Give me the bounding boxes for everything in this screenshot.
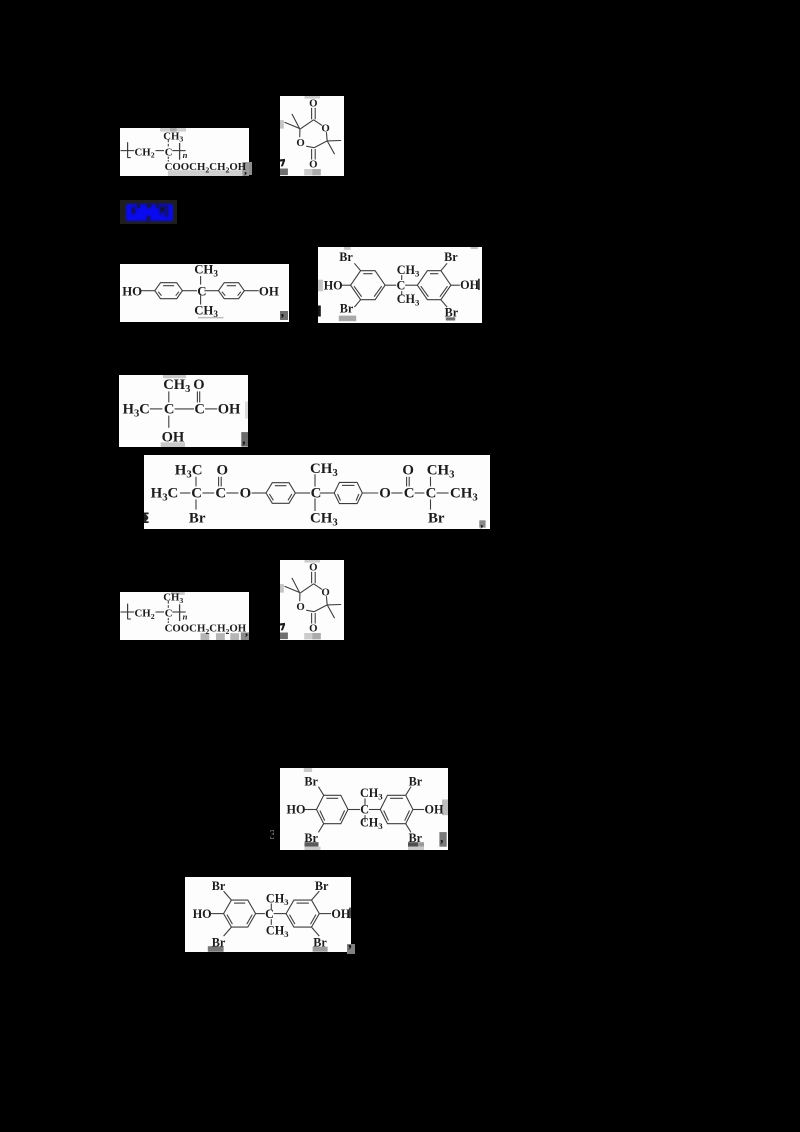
bond C1-OH	[205, 407, 217, 409]
bond ring-OH	[412, 809, 423, 811]
svg-text:,: ,	[244, 162, 247, 176]
svg-text:Br: Br	[444, 250, 458, 264]
methyl on C3 horizontal	[327, 604, 341, 606]
ring bond C3-C4	[314, 605, 327, 612]
svg-text:n: n	[182, 611, 187, 621]
structure box 4: tetrabromobisphenol A	[318, 247, 482, 323]
svg-text:C: C	[191, 486, 202, 502]
bond C-CH3 bottom	[364, 815, 366, 822]
grey patch continuation right of box 1	[249, 162, 252, 175]
comma artifact bottom-right of box 3	[280, 311, 288, 320]
svg-text:CH3​: CH3​	[194, 264, 218, 278]
bond H3C-C1	[180, 492, 190, 494]
bond C4-Br vertical	[430, 499, 432, 509]
benzene ring left	[223, 900, 255, 927]
bond to Br bottom-left	[223, 927, 231, 936]
svg-text:HO: HO	[122, 284, 142, 298]
C=O double bond bottom	[311, 613, 313, 624]
ring bond C1-O2	[314, 120, 322, 126]
svg-text:CH3​: CH3​	[310, 510, 338, 528]
bond H3C-C	[149, 407, 162, 409]
bond to Br top-left	[223, 891, 231, 900]
C=O double bond top	[311, 572, 313, 584]
svg-text:O: O	[240, 486, 252, 502]
C2=O double bond	[218, 477, 220, 487]
bond to Br top-left	[318, 787, 323, 796]
svg-text:O: O	[309, 562, 317, 574]
svg-text:,: ,	[245, 624, 248, 638]
bond CH2-C	[156, 150, 165, 152]
svg-text:HO: HO	[286, 803, 305, 817]
ring bond O2-C3	[325, 132, 328, 141]
svg-text:C: C	[164, 608, 172, 620]
bond C-CH3 (dashed)	[167, 601, 169, 604]
artifact: bar after OH	[478, 279, 480, 290]
svg-text:C: C	[404, 486, 415, 502]
grey artifact patches	[163, 375, 186, 378]
svg-text:Br: Br	[445, 305, 459, 319]
benzene ring left	[316, 795, 348, 823]
bond into left bracket	[120, 611, 134, 613]
comma artifact right of box 10	[347, 944, 354, 955]
svg-text:O: O	[309, 98, 317, 110]
bond C-ring	[368, 809, 379, 811]
svg-text:C: C	[397, 278, 406, 292]
structure box 1: poly(2-hydroxyethyl methacrylate) repeat unit	[120, 128, 249, 176]
polymer right bracket with n	[178, 604, 180, 621]
bond C-COO (dashed)	[167, 618, 169, 620]
svg-text:n: n	[183, 150, 188, 160]
methyl on C6 horizontal	[285, 586, 300, 592]
svg-text:CH3​: CH3​	[194, 304, 218, 320]
ring bond C3-C4	[314, 141, 327, 148]
svg-text:Br: Br	[212, 935, 226, 949]
black glyph artifact left edge	[144, 513, 149, 524]
bond to Br bottom-left	[354, 300, 360, 307]
grey artifact patches	[208, 946, 224, 952]
grey artifact patches	[160, 128, 186, 132]
benzene ring right	[286, 900, 319, 927]
benzene ring left	[351, 271, 386, 300]
grey artifact patches	[305, 96, 321, 99]
C1=O double bond	[196, 391, 198, 402]
black glyph artifact bottom-left	[280, 623, 285, 631]
artifact glyph left of box 9	[270, 830, 274, 842]
benzene ring left	[155, 283, 183, 299]
svg-text:O: O	[379, 486, 391, 502]
bond ring-OH	[244, 290, 258, 292]
svg-text:O: O	[296, 137, 304, 149]
svg-text:HO: HO	[192, 907, 211, 921]
structure box 2: tetramethylglycolide ring	[280, 96, 344, 176]
bond C-ring	[273, 913, 285, 915]
bond O-C3	[391, 492, 402, 494]
bond HO-ring	[141, 290, 155, 292]
methyl on C3 diagonal	[327, 605, 334, 618]
benzene ring right	[417, 271, 451, 300]
bond C-CH3 bottom	[270, 919, 272, 925]
bond C1-Br vertical	[195, 499, 197, 509]
structure box 6: bisphenol A bis(2-bromo-2-methylpropanoate)	[144, 455, 490, 529]
svg-text:COOCH2​CH2​OH: COOCH2​CH2​OH	[165, 161, 247, 174]
svg-text:CH3​: CH3​	[163, 377, 190, 395]
svg-text:Br: Br	[340, 302, 354, 316]
svg-text:OH: OH	[161, 429, 184, 445]
bond to Br top-right	[405, 787, 410, 796]
methyl on C3 horizontal	[327, 140, 341, 142]
grey underline artifact	[198, 317, 224, 319]
svg-text:O: O	[321, 122, 329, 134]
benzene ring right	[380, 795, 413, 823]
svg-text:H3​C: H3​C	[175, 463, 203, 481]
C=O double bond top	[311, 108, 313, 120]
benzene ring 2	[334, 482, 362, 503]
bond C through right bracket	[172, 150, 185, 152]
svg-text:Br: Br	[339, 250, 353, 264]
bond ring-C	[255, 913, 264, 915]
bond to Br bottom-left	[318, 824, 323, 833]
methyl on C6 diagonal	[292, 578, 300, 593]
svg-text:C: C	[163, 401, 174, 417]
bond C2-C1	[174, 407, 193, 409]
methyl on C6 diagonal	[292, 114, 300, 129]
bond HO-ring	[304, 809, 316, 811]
svg-text:,: ,	[440, 831, 443, 845]
grey artifact patches	[304, 842, 318, 847]
svg-text:CH3​: CH3​	[163, 130, 183, 143]
svg-text:O: O	[309, 623, 317, 635]
svg-text:Br: Br	[189, 510, 206, 526]
ring bond O5-C6	[299, 129, 301, 137]
structure box 3: bisphenol A	[120, 264, 289, 322]
grey artifact patches	[305, 560, 321, 563]
bond ring-C	[385, 284, 396, 286]
bond C4-CH3 right	[437, 492, 449, 494]
bond to Br bottom-right	[441, 300, 447, 307]
bond C-CH3 bottom	[314, 499, 316, 512]
svg-text:CH3​: CH3​	[397, 292, 420, 307]
svg-text:Br: Br	[212, 879, 226, 893]
svg-text:,: ,	[480, 516, 483, 529]
svg-text:Br: Br	[315, 879, 329, 893]
svg-text:CH3​: CH3​	[266, 891, 289, 906]
grey artifact patches	[170, 592, 184, 595]
bond C through right bracket	[172, 611, 185, 613]
structure box 10: tetrabromobisphenol A	[185, 877, 351, 952]
ring bond C6-C1	[300, 584, 314, 593]
ring bond O5-C6	[299, 593, 301, 601]
bond to Br top-left	[354, 263, 360, 270]
svg-text:CH3​: CH3​	[310, 461, 338, 479]
svg-text:O: O	[193, 377, 204, 393]
svg-text:O: O	[296, 601, 304, 613]
black glyph artifact bottom-left	[280, 159, 285, 167]
bond C1-CH3 top vertical	[195, 477, 197, 487]
svg-text:C: C	[165, 146, 173, 158]
bond C-CH3 top	[200, 276, 202, 285]
bond HO-ring	[210, 913, 223, 915]
ring bond C4-O5	[306, 610, 314, 612]
svg-text:,: ,	[242, 431, 245, 446]
structure box 7: poly(2-hydroxyethyl methacrylate) repeat unit	[120, 592, 249, 640]
structure box 9: tetrabromobisphenol A	[280, 768, 449, 850]
svg-text:O: O	[217, 463, 229, 479]
artifact: bar after OH	[349, 908, 351, 919]
bond ring-OH	[319, 913, 331, 915]
svg-text:CH2​: CH2​	[135, 146, 155, 159]
svg-text:O: O	[321, 586, 329, 598]
svg-text:Br: Br	[304, 775, 318, 789]
svg-text:Br: Br	[428, 510, 445, 526]
methyl on C6 horizontal	[285, 122, 300, 128]
bond O-ring1	[252, 492, 266, 494]
bond C-CH3 top	[270, 903, 272, 909]
polymer left bracket	[127, 142, 129, 158]
bond ring-C	[348, 809, 360, 811]
bond C-CH3 top	[314, 474, 316, 486]
bond C2-OH vertical	[167, 415, 169, 427]
ring bond C1-O2	[314, 584, 322, 590]
svg-text:Br: Br	[313, 935, 327, 949]
bond C2-CH3 vertical	[167, 391, 169, 402]
svg-text:CH3​: CH3​	[266, 924, 289, 939]
svg-text:OH: OH	[424, 803, 443, 817]
benzene ring 1	[266, 483, 295, 504]
bond C-CH3 bottom	[401, 291, 403, 295]
ring bond O2-C3	[325, 596, 328, 605]
bond ring-C	[182, 290, 197, 292]
C3=O double bond	[406, 477, 408, 487]
bond C-COO (dashed)	[167, 157, 169, 159]
C=O double bond bottom	[311, 149, 313, 160]
svg-text:C: C	[265, 907, 274, 921]
bond HO-ring	[342, 284, 351, 286]
methyl on C3 diagonal	[327, 141, 334, 154]
svg-text:O: O	[402, 463, 414, 479]
bond C-CH3 top	[401, 275, 403, 280]
bond C-CH3 (dashed)	[167, 140, 169, 143]
bond C3-C4	[415, 492, 425, 494]
bond to Br bottom-right	[405, 824, 410, 833]
bond to Br bottom-right	[311, 927, 319, 936]
bond to Br top-right	[311, 891, 319, 900]
bond ring1-C	[295, 492, 310, 494]
svg-text:HO: HO	[324, 278, 343, 292]
ring bond C4-O5	[306, 146, 314, 148]
svg-text:CH3​: CH3​	[360, 786, 383, 801]
bond C4-CH3 vertical	[430, 477, 432, 487]
bond C-ring	[405, 284, 417, 286]
svg-text:CH2​: CH2​	[134, 608, 154, 621]
bond CH2-C	[155, 611, 164, 613]
bond C-ring2	[320, 492, 334, 494]
bond C1-C2	[202, 492, 214, 494]
svg-text:OH: OH	[217, 401, 240, 417]
polymer right bracket with n	[179, 143, 181, 160]
svg-text:C: C	[197, 284, 206, 298]
svg-text:OH: OH	[259, 284, 279, 298]
svg-text:H3​C: H3​C	[151, 486, 179, 504]
bond C-CH3 bottom	[200, 295, 202, 304]
svg-text:OH: OH	[460, 278, 479, 292]
svg-text:CH3​: CH3​	[397, 263, 420, 278]
svg-text:Br: Br	[304, 831, 318, 845]
svg-text:Br: Br	[408, 775, 422, 789]
bond C-ring right	[204, 290, 218, 292]
blue highlighted caption on dark box	[120, 200, 177, 224]
svg-text:CH3​: CH3​	[450, 486, 478, 504]
svg-text:C: C	[426, 486, 437, 502]
ring bond C6-C1	[300, 120, 314, 129]
svg-text:COOCH2​CH2​OH: COOCH2​CH2​OH	[164, 623, 246, 636]
benzene ring right	[219, 283, 245, 299]
bond ring2-O	[362, 492, 378, 494]
svg-text:C: C	[215, 486, 226, 502]
bond C2-O	[226, 492, 238, 494]
polymer left bracket	[126, 604, 128, 620]
svg-text:C: C	[311, 486, 322, 502]
svg-text:O: O	[309, 159, 317, 171]
structure box 8: tetramethylglycolide ring	[280, 560, 344, 640]
bond to Br top-right	[441, 263, 447, 270]
grey patch + comma bottom right	[479, 520, 485, 527]
bond ring-OH	[451, 284, 460, 286]
svg-text:CH3​: CH3​	[360, 816, 383, 831]
structure box 5: 2-hydroxy-2-methylpropanoic acid	[119, 375, 248, 448]
svg-text:H3​C: H3​C	[122, 401, 149, 419]
bond C-CH3 top	[364, 798, 366, 805]
svg-text:Br: Br	[408, 831, 422, 845]
bond into left bracket	[121, 150, 135, 152]
svg-text:OH: OH	[331, 907, 350, 921]
svg-text:C: C	[194, 401, 205, 417]
grey artifact patches	[318, 280, 323, 292]
